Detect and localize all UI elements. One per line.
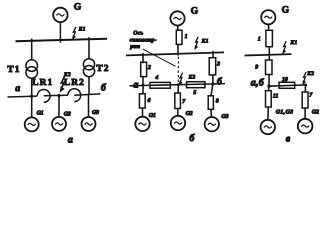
svg-text:9: 9 <box>255 65 258 71</box>
svg-text:5: 5 <box>193 90 196 96</box>
svg-text:б: б <box>217 77 223 88</box>
svg-text:К2: К2 <box>63 72 71 78</box>
svg-text:G3: G3 <box>92 110 99 116</box>
svg-text:G: G <box>191 6 199 17</box>
svg-text:G2: G2 <box>64 112 71 118</box>
svg-text:К1: К1 <box>201 38 209 44</box>
svg-text:G: G <box>74 2 82 13</box>
svg-text:1: 1 <box>258 37 261 43</box>
svg-text:К1: К1 <box>78 26 86 32</box>
svg-text:T2: T2 <box>96 64 109 74</box>
svg-text:6: 6 <box>148 98 151 104</box>
svg-text:LR2: LR2 <box>64 78 85 88</box>
svg-text:G2: G2 <box>312 110 319 116</box>
svg-text:10: 10 <box>282 77 288 83</box>
svg-text:7: 7 <box>309 93 313 99</box>
svg-text:симметр-: симметр- <box>130 37 157 43</box>
svg-text:4: 4 <box>154 75 158 81</box>
svg-text:в: в <box>286 133 291 144</box>
svg-text:а: а <box>15 83 20 94</box>
svg-text:G1: G1 <box>37 110 44 116</box>
svg-text:Ось: Ось <box>133 31 143 37</box>
svg-text:G2: G2 <box>186 111 193 117</box>
svg-text:б: б <box>101 83 107 94</box>
svg-text:а: а <box>133 79 138 90</box>
svg-text:а,б: а,б <box>251 77 265 88</box>
svg-text:G1,G3: G1,G3 <box>276 109 294 115</box>
svg-text:К1: К1 <box>290 40 298 46</box>
svg-text:G: G <box>282 4 290 15</box>
svg-text:К2: К2 <box>188 74 196 80</box>
svg-text:К2: К2 <box>306 71 314 77</box>
svg-text:11: 11 <box>273 94 279 100</box>
svg-text:7: 7 <box>182 99 186 105</box>
svg-text:б: б <box>189 133 195 144</box>
svg-text:G3: G3 <box>221 114 228 120</box>
svg-text:LR1: LR1 <box>32 78 53 88</box>
svg-text:T1: T1 <box>7 65 20 75</box>
svg-text:3: 3 <box>216 61 220 67</box>
svg-text:рии: рии <box>129 44 141 50</box>
svg-text:2: 2 <box>147 65 151 71</box>
svg-text:G1: G1 <box>149 113 156 119</box>
svg-text:8: 8 <box>216 98 219 104</box>
svg-text:1: 1 <box>185 34 188 40</box>
svg-text:а: а <box>68 135 73 146</box>
